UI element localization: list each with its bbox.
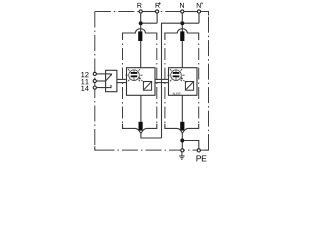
terminal earth [181,149,184,152]
wire R node down to spark gap F1 [140,25,142,32]
electrode bar F2 bottom [180,122,184,131]
wire R' terminal drop [156,14,158,24]
terminal N [181,10,184,13]
disconnector device (square with blade) pole 1 [143,82,151,91]
GDT gas discharge tube U1 (circle with electrodes) [129,70,140,81]
module box 2 [169,68,198,96]
wire F1 electrode to module box [140,41,142,68]
wire N' terminal drop [198,14,200,24]
label 11 [81,79,88,84]
electrode bar F1 top [138,31,142,41]
label N [180,3,184,8]
label R prime [156,3,160,8]
node PE junction dot [180,139,184,143]
label R [137,3,141,8]
switch blade 11-12 [106,75,112,81]
wire N terminal drop [181,14,183,22]
radial spark dashes around U2 [167,69,184,81]
label N-PE inside box 2 [173,93,181,95]
mechanical linkage double line box1 to box2 [155,78,169,80]
dashed actuation arrow U1 to disconnector [139,78,144,83]
wire R node to R' [141,22,157,24]
wire N to N' top link [184,11,197,13]
wire R terminal drop [140,14,142,22]
wire N node left + long vertical to pole1 output [162,23,181,138]
dashed actuation arrow U2 to disconnector [181,78,186,83]
terminal 12 [93,72,96,75]
label N prime [197,3,201,8]
enclosure boundary (dash-dot outline of device) [95,12,209,151]
disconnector device (square with blade) pole 2 [185,82,193,91]
electrode bar F2 top [180,31,184,41]
terminal 11 [93,79,96,82]
spark gap F2 bottom electrode funnel [165,124,199,134]
ground symbol [179,152,184,159]
wire N node to N' [182,22,199,24]
label 12 [81,72,88,77]
spark gap F1 bottom electrode funnel [123,124,157,134]
terminal 14 [93,86,96,89]
wire terminal 11 [97,80,106,82]
wire R to R' top link [143,11,155,13]
spark gap F1 top electrode hood (hat with crossover arc) [123,29,157,40]
mechanical linkage double line FM to box1 [117,78,127,80]
module box 1 [127,68,156,96]
wire terminal 12 [97,73,111,75]
node N junction dot [180,21,184,25]
wire N node down to spark gap F2 [181,25,183,32]
module boundary pole 2 (dash-dot sides) [165,44,199,125]
module boundary pole 1 (dash-dot sides) [123,44,157,125]
wire PE node to PE terminal [184,141,199,149]
electrode bar F1 bottom [139,122,143,131]
terminal PE [197,149,200,152]
wire F2 output down to PE node [181,133,183,148]
GDT gas discharge tube U2 (circle with electrodes) [171,70,182,81]
terminal R' [156,10,159,13]
terminal N' [197,10,200,13]
radial spark dashes around U1 [125,69,142,81]
label PE [197,155,207,161]
FM switch box (remote signalling contact) [106,70,117,91]
node R junction dot [139,21,143,25]
wire box1 to bottom electrode [140,95,142,122]
terminal R [139,10,142,13]
wire terminal 14 with hook [97,85,111,88]
label 14 [81,86,89,91]
wire box2 to bottom electrode [181,95,183,122]
wire F2 electrode to module box 2 [181,41,183,68]
wire pole1 output to N vertical [141,133,162,138]
spark gap F2 top electrode hood (hat with crossover arc) [165,29,199,40]
